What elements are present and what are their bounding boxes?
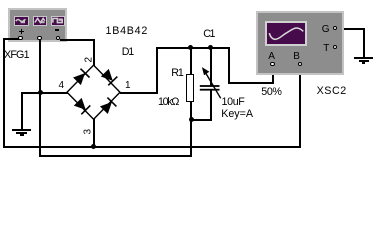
- XSC2 screen: [265, 21, 307, 46]
- wire ground to bridge pin4: [21, 92, 68, 94]
- function generator XFG1: [8, 8, 67, 43]
- bridge pin 3 label: [84, 125, 94, 134]
- label 50%: [261, 87, 281, 98]
- wire R1 to C1 bottom link: [190, 119, 212, 121]
- label 10uF: [222, 97, 245, 108]
- XFG1 plus mark: [19, 31, 24, 32]
- XSC2 label B: [293, 52, 300, 62]
- XSC2 label A: [268, 52, 275, 62]
- wire R1C1 bottom riser: [190, 119, 192, 157]
- plate bottom: [200, 89, 220, 91]
- label R1: [171, 68, 182, 79]
- wire from XFG1 - to bridge top: [60, 39, 95, 41]
- wire bottom bus to scope B: [3, 146, 302, 148]
- XSC2 terminal B: [298, 62, 302, 66]
- ground left: [0, 0, 378, 1]
- bridge rectifier D1: [55, 57, 135, 131]
- junction node C1 top: [208, 45, 213, 50]
- label D1: [122, 47, 133, 58]
- ground right: [0, 0, 378, 1]
- wire R1 column: [190, 48, 192, 75]
- XFG1 minus mark: [55, 29, 59, 30]
- wire top node horizontal: [156, 47, 230, 49]
- bridge pin 4 label: [59, 81, 65, 91]
- wire jog down toward scope A: [228, 47, 230, 84]
- arrow: [202, 67, 221, 98]
- bridge pin 1 label: [125, 81, 131, 91]
- variable capacitor C1: [196, 62, 232, 106]
- wire to scope A horizontal: [228, 82, 274, 84]
- bridge pin 2 label: [84, 53, 94, 62]
- wire left edge vertical: [3, 38, 5, 148]
- resistor R1: [186, 74, 194, 102]
- wire left ground riser: [21, 92, 23, 129]
- label 1B4B42: [106, 26, 149, 37]
- plate top: [200, 85, 220, 87]
- junction node R1 top: [188, 45, 193, 50]
- wire scope A riser: [272, 66, 274, 83]
- diode top-right: [100, 68, 118, 86]
- wire R1 bottom lead: [190, 101, 192, 120]
- diamond outline: [67, 65, 120, 119]
- label XSC2: [317, 86, 347, 97]
- wire right ground riser: [363, 28, 365, 58]
- label 10kOhm: [158, 97, 178, 108]
- wire from XFG1 + going left: [3, 38, 20, 40]
- wire pin1 riser up: [156, 47, 158, 94]
- wire bridge pin1 to riser: [120, 92, 158, 94]
- XSC2 terminal T: [333, 45, 337, 49]
- wire C1 bottom lead: [210, 90, 212, 120]
- diode bottom-left: [73, 97, 91, 115]
- XSC2 label G: [322, 25, 330, 35]
- XSC2 label T: [323, 44, 329, 54]
- junction node R1C1 bottom: [189, 117, 194, 122]
- wire scope B riser: [299, 66, 301, 148]
- diode bottom-right: [99, 97, 117, 115]
- wire bridge pin2 riser: [93, 39, 95, 66]
- label C1: [203, 29, 214, 40]
- XSC2 terminal A: [270, 62, 274, 66]
- oscilloscope XSC2: [256, 11, 344, 75]
- XFG1 terminal +: [18, 36, 23, 41]
- wire scope G to ground: [337, 28, 365, 30]
- XSC2 terminal G: [333, 26, 337, 30]
- junction node at XFG1 common: [38, 90, 43, 95]
- diode top-left: [72, 68, 90, 86]
- wire bottom bus2 to R1C1 node: [39, 155, 192, 157]
- XFG1 terminal -: [56, 36, 61, 41]
- wire bridge pin3 drop: [93, 119, 95, 148]
- junction node at bridge pin3: [91, 144, 96, 149]
- label XFG1: [4, 50, 29, 61]
- XFG1 terminal common: [37, 36, 42, 41]
- label Key=A: [221, 109, 253, 120]
- wire C1 top lead: [210, 48, 212, 86]
- wire XFG1 common drop: [39, 40, 41, 157]
